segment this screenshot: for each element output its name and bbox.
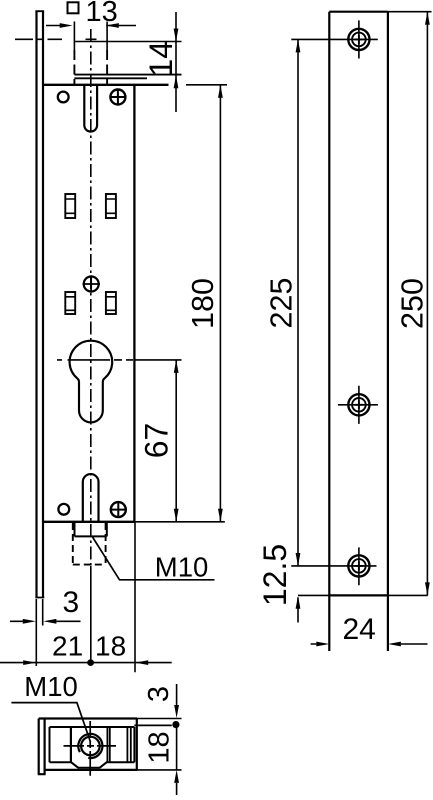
svg-text:250: 250 xyxy=(395,278,429,329)
svg-text:225: 225 xyxy=(264,278,298,329)
svg-text:18: 18 xyxy=(143,731,175,763)
svg-text:13: 13 xyxy=(86,0,118,28)
svg-text:21: 21 xyxy=(52,630,83,661)
svg-text:67: 67 xyxy=(138,423,174,459)
svg-text:24: 24 xyxy=(343,613,376,646)
svg-text:14: 14 xyxy=(143,41,179,77)
svg-text:12.5: 12.5 xyxy=(257,544,293,606)
svg-text:180: 180 xyxy=(186,278,220,329)
svg-text:M10: M10 xyxy=(24,671,78,702)
svg-text:3: 3 xyxy=(143,686,175,702)
svg-text:3: 3 xyxy=(63,586,80,619)
svg-text:18: 18 xyxy=(95,630,126,661)
svg-text:M10: M10 xyxy=(155,552,209,583)
